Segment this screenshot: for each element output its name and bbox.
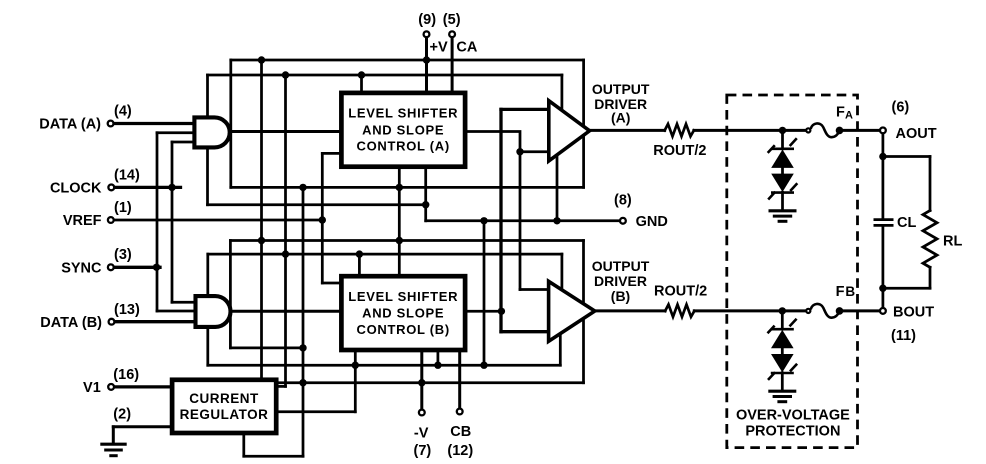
svg-text:AND SLOPE: AND SLOPE bbox=[362, 122, 444, 137]
svg-text:GND: GND bbox=[636, 214, 668, 230]
wire box A output bbox=[468, 132, 521, 290]
wire gate A output to box A bbox=[229, 130, 339, 133]
wire thick bus x=501 bbox=[499, 109, 502, 331]
terminal GND pin 8 bbox=[620, 218, 626, 224]
wire AOUT drop to CL bbox=[882, 134, 885, 218]
wire zener A bottom stem bbox=[781, 192, 784, 209]
wire x=207.8 drop (crosses gate B) bbox=[206, 254, 209, 365]
terminal V1 pin 16 bbox=[108, 384, 114, 390]
wire box B output bbox=[468, 310, 502, 313]
wire fuse A to AOUT bbox=[840, 129, 880, 132]
svg-text:(5): (5) bbox=[443, 12, 461, 28]
dashed box over-voltage protection bbox=[727, 95, 858, 448]
wire stub to driver B upper input bbox=[520, 288, 549, 291]
wire driver A output bbox=[589, 129, 665, 132]
wire CB stub bbox=[458, 352, 461, 408]
wire x=285.5 vertical bbox=[284, 75, 287, 386]
wire stub to CR box right y=386.4 bbox=[279, 385, 286, 388]
node h5/x359.4 bbox=[356, 250, 363, 257]
svg-text:CURRENT: CURRENT bbox=[189, 391, 259, 406]
svg-text:CONTROL (B): CONTROL (B) bbox=[356, 322, 449, 337]
wire +V ring top y=60 bbox=[231, 59, 584, 62]
AND gate U2 (B) bbox=[196, 296, 231, 327]
wire stub to box B left y=283 bbox=[322, 282, 339, 285]
wire SYNC bbox=[115, 266, 160, 269]
terminal DATA (B) pin 13 bbox=[109, 319, 115, 325]
wire x=322.3 vertical bbox=[321, 153, 324, 283]
node h_b/x303 bbox=[299, 379, 306, 386]
zener diode D3 (B upper) bbox=[768, 319, 797, 334]
wire CL bottom to BOUT bbox=[882, 227, 885, 308]
node AOUT/RL branch bbox=[879, 153, 886, 160]
wire x=399.3 boxA bottom to boxB top bbox=[398, 169, 401, 274]
wire RL top bbox=[929, 157, 932, 211]
node y75/x285.5 bbox=[282, 71, 289, 78]
wire x=207.5 vertical (crosses gate A) bbox=[206, 75, 209, 205]
node CLOCK/x172 bbox=[168, 184, 175, 191]
AND gate U1 (A) bbox=[194, 117, 229, 147]
svg-text:(7): (7) bbox=[414, 443, 432, 459]
wire bottom loop horizontal bbox=[244, 455, 303, 458]
wire x=561.9 drop to driver A bbox=[561, 75, 564, 112]
svg-text:(16): (16) bbox=[113, 367, 139, 383]
svg-text:SYNC: SYNC bbox=[61, 260, 102, 276]
fuse F_B bbox=[806, 309, 810, 313]
svg-text:RL: RL bbox=[943, 234, 962, 250]
svg-text:ROUT/2: ROUT/2 bbox=[653, 143, 706, 159]
wire x=560.3 riser to driver B bottom bbox=[559, 334, 562, 365]
svg-text:CONTROL (A): CONTROL (A) bbox=[356, 139, 449, 154]
wire x=157 SYNC riser bbox=[156, 133, 159, 311]
node zener A tap bbox=[779, 127, 786, 134]
svg-text:DRIVER: DRIVER bbox=[594, 273, 647, 289]
wire h_c y=365.2 bbox=[208, 364, 561, 367]
terminal circles bbox=[108, 31, 886, 415]
terminal +V pin 9 bbox=[424, 31, 430, 37]
wire -V stub bbox=[420, 352, 423, 409]
wire bottom loop riser to CR box bbox=[242, 435, 245, 456]
terminal DATA (A) pin 4 bbox=[108, 121, 114, 127]
node boxAout/x520 bbox=[516, 148, 523, 155]
wire zener A mid stem bbox=[781, 167, 784, 174]
svg-text:VREF: VREF bbox=[63, 213, 102, 229]
svg-text:+V: +V bbox=[430, 40, 448, 56]
wire h_a y=347.9 bbox=[230, 347, 303, 350]
terminal VREF pin 1 bbox=[108, 217, 114, 223]
node fuse A right bbox=[836, 127, 844, 135]
wire x=261.5 vertical bbox=[260, 60, 263, 378]
wire ground(2) stem bbox=[112, 427, 115, 443]
wire y=204.7 to +V drop bbox=[208, 203, 426, 206]
wire zener B bottom stem bbox=[781, 373, 784, 390]
svg-text:DATA (A): DATA (A) bbox=[39, 117, 101, 133]
wire +V ring right x=583.6 bbox=[582, 60, 585, 187]
terminal AOUT pin 6 bbox=[880, 127, 886, 133]
svg-text:(A): (A) bbox=[611, 109, 630, 125]
wire VREF bbox=[115, 219, 323, 222]
wire x=172 CLOCK riser bbox=[171, 142, 174, 302]
box U6 level shifter B bbox=[341, 276, 465, 350]
svg-text:-V: -V bbox=[414, 425, 429, 441]
wire CLOCK bbox=[115, 186, 181, 189]
zener diode D4 (B lower) bbox=[771, 354, 794, 372]
wire +V stub into box A bbox=[425, 38, 428, 91]
wire x=583.5 drop (crosses driver B) bbox=[582, 241, 585, 383]
svg-text:CA: CA bbox=[456, 40, 477, 56]
box U5 level shifter A bbox=[341, 93, 465, 167]
wire GND line y=220.8 bbox=[426, 219, 620, 222]
wire stub gate A input3 bbox=[172, 141, 196, 144]
svg-text:(B): (B) bbox=[611, 288, 630, 304]
wire stub to box A left y=153.4 bbox=[322, 152, 339, 155]
wire x=557 driver A gnd drop bbox=[556, 156, 559, 221]
node y75/x361.5 bbox=[358, 71, 365, 78]
wire stub gate B input1 bbox=[172, 301, 197, 304]
node y60/+V bbox=[423, 56, 430, 63]
terminal CLOCK pin 14 bbox=[108, 185, 114, 191]
svg-text:F: F bbox=[836, 284, 845, 300]
svg-text:REGULATOR: REGULATOR bbox=[180, 407, 269, 422]
op-amp U3 output driver (A) bbox=[549, 101, 590, 161]
wire x=355.3 boxB bottom to CR bbox=[354, 352, 357, 412]
node y187/x399 bbox=[396, 184, 403, 191]
node y187/x303 bbox=[299, 184, 306, 191]
svg-text:CLOCK: CLOCK bbox=[50, 181, 102, 197]
svg-text:(1): (1) bbox=[114, 200, 132, 216]
wire x=484 GND drop bbox=[483, 221, 486, 365]
wire zener A top stem bbox=[781, 130, 784, 148]
zener diode D1 (A upper) bbox=[768, 138, 797, 153]
box U7 current regulator bbox=[172, 380, 276, 433]
node h4/x261.5 bbox=[258, 237, 265, 244]
wire RL bottom bbox=[929, 267, 932, 288]
node y204.7/x425.7 bbox=[422, 201, 429, 208]
node boxBout/x501 bbox=[498, 308, 505, 315]
wire zener B top stem bbox=[781, 311, 784, 329]
node h_c/x484 bbox=[480, 362, 487, 369]
terminal CA pin 5 bbox=[449, 31, 455, 37]
fuse F_A bbox=[806, 128, 810, 132]
wire resistor B to fuse bbox=[694, 309, 806, 312]
wire stub to driver A lower input bbox=[520, 150, 549, 153]
svg-text:(13): (13) bbox=[114, 302, 140, 318]
wire RL bottom to BOUT net bbox=[883, 287, 930, 290]
wire zener B mid stem bbox=[781, 347, 784, 354]
wire x=230.4 drop (crosses gate B) bbox=[229, 241, 232, 348]
ground symbol at pin (2) bbox=[100, 444, 126, 456]
wire DATA(B) bbox=[116, 320, 198, 323]
svg-text:F: F bbox=[836, 104, 845, 120]
node h_c/x437.9 bbox=[434, 362, 441, 369]
node h4/x399.3 bbox=[396, 237, 403, 244]
wire DATA(A) bbox=[115, 122, 195, 125]
wire x=561.9 drop to driver B top bbox=[561, 254, 564, 290]
svg-text:(14): (14) bbox=[114, 167, 140, 183]
zener diode D2 (A lower) bbox=[771, 174, 794, 192]
node SYNC/x157 bbox=[153, 264, 160, 271]
node h_c/x355.3 bbox=[352, 362, 359, 369]
node h5/x285.5 bbox=[282, 250, 289, 257]
svg-text:B: B bbox=[845, 284, 855, 299]
wire h5 y=254.1 bbox=[208, 253, 562, 256]
wire gate B output to box B bbox=[229, 310, 339, 313]
svg-text:(9): (9) bbox=[418, 12, 436, 28]
svg-text:ROUT/2: ROUT/2 bbox=[654, 283, 707, 299]
node GND/x484 bbox=[480, 217, 487, 224]
ground below zeners A bbox=[769, 211, 797, 222]
svg-text:LEVEL SHIFTER: LEVEL SHIFTER bbox=[348, 106, 458, 121]
svg-text:OUTPUT: OUTPUT bbox=[592, 81, 650, 97]
wire h_b y=382.7 bbox=[279, 381, 584, 384]
node VREF/x322 bbox=[319, 216, 326, 223]
op-amp U4 output driver (B) bbox=[549, 281, 595, 341]
wire branch to RL bbox=[883, 155, 930, 158]
svg-text:PROTECTION: PROTECTION bbox=[745, 424, 840, 440]
svg-text:CL: CL bbox=[897, 215, 916, 231]
wire resistor A to fuse bbox=[694, 129, 806, 132]
svg-text:(11): (11) bbox=[891, 328, 916, 344]
wire ground(2) horizontal bbox=[113, 425, 170, 428]
svg-text:(3): (3) bbox=[114, 247, 132, 263]
wire thick stub driver A upper input bbox=[501, 108, 549, 111]
svg-text:(12): (12) bbox=[447, 443, 473, 459]
wire x=359.4 stub into box B top bbox=[358, 254, 361, 274]
wire +V ring bottom y=187.4 bbox=[231, 186, 584, 189]
resistor RL bbox=[923, 211, 937, 268]
wire x=437.9 stub boxB bottom bbox=[437, 352, 440, 365]
wire stub gate B input2 bbox=[157, 310, 197, 313]
svg-text:CB: CB bbox=[450, 424, 471, 440]
wire bus y=75 bbox=[208, 74, 562, 77]
svg-text:(2): (2) bbox=[113, 407, 131, 423]
node BOUT/RL branch bbox=[879, 285, 886, 292]
resistor ROUT/2 (A) bbox=[665, 124, 694, 136]
wire x=361.5 stub into box A top bbox=[360, 75, 363, 91]
terminal CB pin 12 bbox=[457, 409, 463, 415]
svg-text:OUTPUT: OUTPUT bbox=[592, 258, 650, 274]
svg-text:BOUT: BOUT bbox=[893, 305, 934, 321]
terminal -V pin 7 bbox=[419, 410, 425, 416]
svg-text:(4): (4) bbox=[114, 103, 132, 119]
wire driver B output bbox=[594, 309, 665, 312]
svg-text:AOUT: AOUT bbox=[896, 126, 937, 142]
svg-text:DATA (B): DATA (B) bbox=[40, 315, 102, 331]
wire V1 bbox=[116, 385, 170, 388]
wire x=303 vertical bbox=[302, 187, 305, 456]
wire h4 y=240.5 bbox=[230, 239, 583, 242]
node h_b/-V bbox=[418, 379, 425, 386]
svg-text:A: A bbox=[845, 110, 853, 122]
wire stub CR right y=411.8 bbox=[279, 410, 356, 413]
wire fuse B to BOUT bbox=[840, 309, 880, 312]
svg-text:OVER-VOLTAGE: OVER-VOLTAGE bbox=[736, 407, 850, 423]
capacitor CL bbox=[874, 220, 894, 226]
wire thick stub driver B lower input bbox=[501, 330, 549, 333]
wire stub gate A input2 bbox=[157, 131, 196, 134]
node y60/x261.5 bbox=[258, 56, 265, 63]
terminal BOUT pin 11 bbox=[880, 308, 886, 314]
wire +V ring left x=230.8 (crosses gate A) bbox=[229, 60, 232, 187]
resistor ROUT/2 (B) bbox=[665, 305, 694, 317]
svg-text:(6): (6) bbox=[892, 100, 910, 116]
svg-text:V1: V1 bbox=[83, 380, 101, 396]
node h_a/x303 bbox=[299, 344, 306, 351]
terminal SYNC pin 3 bbox=[108, 264, 114, 270]
wire x=425.7 boxA bottom to GND line bbox=[424, 169, 427, 221]
svg-text:LEVEL SHIFTER: LEVEL SHIFTER bbox=[348, 289, 458, 304]
node fuse B right bbox=[836, 307, 844, 315]
svg-text:(8): (8) bbox=[614, 193, 632, 209]
node zener B tap bbox=[779, 307, 786, 314]
node GND/x557 bbox=[553, 217, 560, 224]
ground below zeners B bbox=[768, 391, 796, 402]
wire CA stub into box A bbox=[451, 38, 454, 91]
svg-text:AND SLOPE: AND SLOPE bbox=[362, 306, 444, 321]
